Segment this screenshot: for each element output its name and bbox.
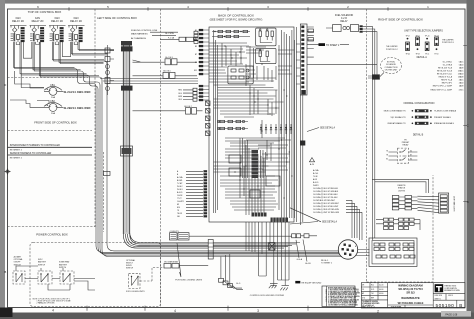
title block center titles <box>388 283 434 308</box>
svg-text:13A2C: 13A2C <box>458 69 464 72</box>
sub-circuit box U4 <box>228 66 253 84</box>
svg-text:FOR NON LOGGING UNITS: FOR NON LOGGING UNITS <box>175 280 202 282</box>
svg-text:TO SHEET 2: TO SHEET 2 <box>321 263 332 265</box>
connector pair P4 <box>133 106 203 114</box>
svg-text:B7: B7 <box>195 54 197 56</box>
title block frame <box>361 283 465 308</box>
svg-text:FOR LOGGING UNITS: FOR LOGGING UNITS <box>126 291 145 293</box>
svg-text:GL4 GL3: GL4 GL3 <box>165 57 173 59</box>
svg-text:W/ FUELING CABLE: W/ FUELING CABLE <box>398 301 424 305</box>
wire fueling line with label GL-2 <box>150 32 178 35</box>
relay K5 fuel solenoid box <box>333 25 342 32</box>
svg-text:DWG SIZE: DWG SIZE <box>435 295 442 297</box>
svg-text:OTHERWISE SPECIFIED: OTHERWISE SPECIFIED <box>362 303 380 305</box>
svg-text:WIRING DIAGRAM: WIRING DIAGRAM <box>398 283 423 287</box>
title block left table <box>361 283 387 309</box>
connector P10 <box>304 234 309 238</box>
svg-text:5A2D: 5A2D <box>459 63 464 66</box>
border zone target marker left <box>5 169 11 175</box>
svg-text:F-1 3A: F-1 3A <box>168 37 175 40</box>
svg-text:B3: B3 <box>195 38 197 40</box>
coil L1 <box>343 26 346 29</box>
svg-text:CONTROL BOX GROUND SYSTEM: CONTROL BOX GROUND SYSTEM <box>250 295 284 297</box>
svg-text:FRONT SIDE OF CONTROL BOX: FRONT SIDE OF CONTROL BOX <box>34 120 77 124</box>
svg-text:SHEET NOTES: SHEET NOTES <box>325 289 327 302</box>
light bar connector strip J7 <box>439 193 449 213</box>
svg-text:DETAIL A: DETAIL A <box>417 56 428 59</box>
svg-text:2A2D: 2A2D <box>459 81 464 84</box>
wire bundle horizontal run lower <box>150 251 342 257</box>
svg-text:4: 4 <box>52 309 54 313</box>
svg-text:W-BTK: W-BTK <box>313 185 319 187</box>
svg-text:(SEE SHEET 3 FOR P.C. BOARD CI: (SEE SHEET 3 FOR P.C. BOARD CIRCUITRY) <box>210 19 263 22</box>
svg-text:DETAIL B: DETAIL B <box>413 133 424 136</box>
edge connector J3 right pin strip <box>300 24 314 95</box>
svg-text:RE(??) GP1: RE(??) GP1 <box>442 82 452 84</box>
terminal strip TB2 <box>252 213 267 217</box>
svg-text:2: 2 <box>377 310 379 314</box>
wire to sheet 2 bold label <box>319 43 326 46</box>
svg-text:RE SHEET 2: RE SHEET 2 <box>10 157 23 159</box>
sub-circuit box U2 <box>256 28 276 46</box>
svg-text:LEFT SIDE OF CONTROL BOX: LEFT SIDE OF CONTROL BOX <box>97 16 137 20</box>
svg-text:A-CHA: A-CHA <box>177 176 183 179</box>
svg-text:RE EQUIP GROUND: RE EQUIP GROUND <box>302 282 322 284</box>
svg-text:(?)4C: (?)4C <box>459 90 464 92</box>
resistor row R7-R14 <box>217 120 248 129</box>
svg-text:WHISPERATE: WHISPERATE <box>401 296 420 300</box>
svg-text:B11: B11 <box>194 70 197 72</box>
connector cluster C6 <box>403 243 414 251</box>
wire interconnect harness <box>8 146 93 148</box>
fuse block F1 column <box>105 45 114 95</box>
wire harness to plug pair GL4 <box>133 60 165 62</box>
svg-text:BATTERY: BATTERY <box>38 261 47 264</box>
harness cable W1 thick bundle <box>121 41 151 248</box>
svg-text:STANDA/ONE SIGNALS: STANDA/ONE SIGNALS <box>434 122 455 125</box>
svg-text:RE GL2(?) TC1-B: RE GL2(?) TC1-B <box>437 70 453 72</box>
svg-text:CH CHNL(L) RED GP RED-GRN: CH CHNL(L) RED GP RED-GRN <box>313 209 339 211</box>
leader line non logging <box>177 243 181 277</box>
wire drops from relay K2 <box>33 42 102 85</box>
sub-circuit box U3 <box>256 48 276 63</box>
svg-text:TOP OF CONTROL BOX: TOP OF CONTROL BOX <box>28 10 62 14</box>
svg-text:RE GL2(?) TC1-D: RE GL2(?) TC1-D <box>437 73 453 75</box>
svg-text:30: 30 <box>410 150 412 152</box>
wire drops from relay K4 <box>72 42 115 55</box>
inter-relay U loops <box>23 42 70 58</box>
ribbon cable to light bar <box>418 196 439 213</box>
svg-text:W-GL2: W-GL2 <box>177 186 183 188</box>
diode row CR1-CR6 <box>260 124 292 134</box>
aux connector cluster P8 <box>219 278 244 289</box>
dashed boundary power box top <box>8 226 96 228</box>
svg-text:INTERCONNECT HARNESS TO CONTRO: INTERCONNECT HARNESS TO CONTROLLER <box>10 144 60 147</box>
contact pins lower-left rows <box>204 170 208 217</box>
connector square J4 <box>300 141 305 146</box>
svg-text:F-2 R: F-2 R <box>341 18 347 20</box>
wire labels column to controller <box>178 88 197 101</box>
svg-text:6-1-90: 6-1-90 <box>379 285 384 287</box>
wire bundle horizontal run upper <box>150 243 300 249</box>
svg-text:CK: CK <box>362 289 364 291</box>
svg-text:FUELING CONTROL LINE: FUELING CONTROL LINE <box>131 30 158 32</box>
svg-text:SWITCH: SWITCH <box>126 268 134 270</box>
vertical wire bus from relays with sweep to horizontal run <box>96 64 150 257</box>
svg-text:FUEL SOLENOID: FUEL SOLENOID <box>335 15 354 17</box>
svg-text:GL-D: GL-D <box>236 283 241 285</box>
svg-text:CH CHNL(L) WHT GP RED-GRN: CH CHNL(L) WHT GP RED-GRN <box>313 212 340 214</box>
component column left inner <box>206 101 211 136</box>
connector cluster C4 <box>374 243 385 251</box>
svg-text:CH CHNL(P) BLK GP BLU-BLK: CH CHNL(P) BLK GP BLU-BLK <box>313 194 339 196</box>
svg-text:4 CHNL/TS: 4 CHNL/TS <box>170 231 180 233</box>
svg-text:BACK OF CONTROL BOX: BACK OF CONTROL BOX <box>218 13 254 17</box>
svg-text:NORMAL CONFIGURATION: NORMAL CONFIGURATION <box>404 102 435 105</box>
enclosure box remote connectors <box>369 238 417 266</box>
svg-text:CH CHNL(P) BLK GP GRN-WHT: CH CHNL(P) BLK GP GRN-WHT <box>313 203 340 205</box>
svg-text:13A2D: 13A2D <box>458 72 464 75</box>
svg-text:5A2E: 5A2E <box>459 66 464 69</box>
svg-text:SD-II/5A) 30 TC/TCI: SD-II/5A) 30 TC/TCI <box>398 287 423 291</box>
svg-text:CH CHNL(P) BLK GP RED-BLK: CH CHNL(P) BLK GP RED-BLK <box>313 188 339 190</box>
connector P5 bold block <box>372 74 380 79</box>
svg-text:RELAY: RELAY <box>402 144 409 147</box>
switch SW3 <box>60 271 74 284</box>
svg-text:RE(??) GP1 L-2 JUMP: RE(??) GP1 L-2 JUMP <box>433 85 453 87</box>
dashed boundary center region <box>160 9 162 308</box>
svg-text:RE(GL?)GP1 TC-L JUMP: RE(GL?)GP1 TC-L JUMP <box>430 90 452 92</box>
page label margin <box>441 311 471 317</box>
bus wires vertical lower-left <box>246 145 264 215</box>
svg-text:PRESENT SIGNALS: PRESENT SIGNALS <box>434 116 452 119</box>
connector P9 pair <box>292 234 296 238</box>
svg-text:TK-SELECT-ONE STANDA: TK-SELECT-ONE STANDA <box>434 110 457 113</box>
scan margin left <box>0 0 5 319</box>
chassis ground G2 <box>280 283 289 290</box>
junction dots <box>221 45 292 198</box>
svg-text:GL-1 RE-B: GL-1 RE-B <box>443 64 453 66</box>
svg-text:B: B <box>467 200 469 204</box>
svg-text:505190: 505190 <box>436 303 455 309</box>
svg-text:7E-DF: 7E-DF <box>177 213 182 215</box>
svg-text:OPTIONAL: OPTIONAL <box>14 258 23 261</box>
vertical wires below edge connector <box>300 95 303 225</box>
svg-text:SR 2(3: SR 2(3 <box>406 291 415 295</box>
svg-text:CB2: CB2 <box>50 100 55 103</box>
svg-text:GL8 GL7: GL8 GL7 <box>184 106 192 108</box>
connector column fueling <box>194 31 198 34</box>
svg-text:LIGHTS: LIGHTS <box>398 190 406 192</box>
svg-text:13A2E: 13A2E <box>458 75 464 78</box>
pc board U1 outer box <box>209 27 294 222</box>
svg-text:GRN: GRN <box>178 96 183 98</box>
wires round connector to right region <box>356 250 370 256</box>
connector pair P3 <box>163 71 197 79</box>
circuit breaker CB1 20A <box>44 84 63 99</box>
wire CB2 left loop <box>10 100 49 107</box>
wire pc board to sheet2 <box>307 44 349 46</box>
svg-text:STATUS: STATUS <box>398 187 406 190</box>
svg-text:3: 3 <box>257 309 259 313</box>
svg-text:RELAY 2D: RELAY 2D <box>12 20 24 23</box>
svg-text:MAIN HARNESS: MAIN HARNESS <box>131 33 148 36</box>
cable cap connector <box>121 41 132 46</box>
svg-text:53(C SIGNALS TP-: 53(C SIGNALS TP- <box>390 116 406 119</box>
svg-text:CB1: CB1 <box>50 84 55 87</box>
relay K6 detail box dashed <box>397 148 408 163</box>
svg-text:ONE/DAT ENABLE TP-: ONE/DAT ENABLE TP- <box>387 122 406 125</box>
svg-text:20A: 20A <box>51 96 55 99</box>
svg-text:SOME HEAT: SOME HEAT <box>59 261 70 264</box>
svg-text:CH CHNL(P) BLK GP BLU-WHT: CH CHNL(P) BLK GP BLU-WHT <box>313 206 339 208</box>
dashed boundary front side region <box>8 130 93 132</box>
wire drops from relay K3 <box>53 42 108 64</box>
Thermo King logo <box>435 284 461 292</box>
wire drops from relay K1 <box>14 42 99 89</box>
svg-text:ALT HARNESS: ALT HARNESS <box>131 37 147 40</box>
svg-text:3. GROUND PER CONTROL BOX SYST: 3. GROUND PER CONTROL BOX SYSTEM <box>328 293 360 295</box>
vertical drop wires to round connector <box>352 200 362 240</box>
svg-text:CH CHNL(P) BLK GP GRN-BLK: CH CHNL(P) BLK GP GRN-BLK <box>313 191 339 193</box>
svg-text:POSITION 2-3: POSITION 2-3 <box>442 42 454 44</box>
pc board right edge double line <box>295 27 297 222</box>
switch SW1 <box>13 271 25 284</box>
svg-text:TO SHEET 2: TO SHEET 2 <box>326 45 340 47</box>
svg-text:5A2C: 5A2C <box>459 60 464 63</box>
terminal strip TB1 <box>271 218 289 223</box>
cable band connector B2 <box>121 86 133 91</box>
wire pc board to right region <box>307 64 377 74</box>
wire harness to plug pair P3 <box>133 75 163 77</box>
dashed boundary left-side region <box>94 9 96 227</box>
wire tangle mid verticals <box>240 138 266 178</box>
svg-text:TP-D: TP-D <box>434 54 439 56</box>
cable band connector B3 <box>121 146 133 156</box>
svg-text:TP-8: TP-8 <box>406 35 410 37</box>
wires to relay K6 left <box>389 152 398 160</box>
wires cluster C2 C3 <box>376 220 420 230</box>
svg-text:POWER CONTROL BOX: POWER CONTROL BOX <box>36 233 68 237</box>
svg-text:RIGHT SIDE OF CONTROL BOX: RIGHT SIDE OF CONTROL BOX <box>378 18 423 22</box>
wire drops to aux cluster <box>221 254 230 284</box>
feed wires from relay area <box>100 79 198 84</box>
svg-text:4: 4 <box>174 309 176 313</box>
svg-text:CH 2M3 BLK GP RED-WHT: CH 2M3 BLK GP RED-WHT <box>313 200 336 202</box>
svg-text:. PAGE-1.08: . PAGE-1.08 <box>444 313 458 316</box>
svg-text:GL4-A: GL4-A <box>297 258 303 261</box>
svg-text:T-CHP: T-CHP <box>177 183 183 185</box>
connector cluster C1 right column <box>399 196 418 210</box>
bold ground label <box>295 281 300 284</box>
connector pair P2 GL4/GL3 <box>165 57 197 65</box>
svg-text:B: B <box>4 270 6 274</box>
detail marker A2 triangle <box>309 158 314 162</box>
svg-text:7E: 7E <box>386 154 388 156</box>
svg-text:SEE DETAIL A: SEE DETAIL A <box>320 126 336 129</box>
svg-text:20A: 20A <box>51 112 55 115</box>
border zone ticks top <box>69 7 388 11</box>
leader line detail A <box>307 128 319 132</box>
svg-text:W-2B#14 AWG RED: W-2B#14 AWG RED <box>64 106 91 110</box>
border zone ticks bottom <box>87 306 308 311</box>
connector J5 on dashed boundary <box>104 171 111 175</box>
svg-text:GL4-B: GL4-B <box>305 263 311 265</box>
svg-text:OPTIONAL: OPTIONAL <box>126 259 135 262</box>
connector cluster C5 <box>389 243 400 251</box>
wire relay K1 to CB loop <box>15 71 44 88</box>
pin U-loops <box>16 42 77 45</box>
wires between switches <box>16 266 95 290</box>
svg-text:GL-2 47A: GL-2 47A <box>165 32 174 35</box>
svg-text:RELAY 2D: RELAY 2D <box>32 20 44 23</box>
svg-text:CH-DF: CH-DF <box>177 195 182 197</box>
svg-text:RELAY: RELAY <box>340 20 348 23</box>
notes box <box>322 286 360 307</box>
pin function list rows <box>430 60 464 91</box>
svg-text:CH CHNL(P) BLK GP YEL-BLK: CH CHNL(P) BLK GP YEL-BLK <box>313 197 338 199</box>
dashed boundary top-left region <box>8 77 89 79</box>
svg-text:505170: 505170 <box>448 295 453 297</box>
svg-text:A-START: A-START <box>14 256 22 259</box>
connector P6 4CHNL/TS <box>164 261 208 268</box>
svg-text:RE SHEET 2: RE SHEET 2 <box>10 150 23 152</box>
small component boxes lower <box>229 155 241 163</box>
dashed boundary remote lights region <box>367 175 434 282</box>
svg-text:W-GL3: W-GL3 <box>177 189 183 191</box>
note label RE GL-1 TO SHEET 2 <box>321 260 332 265</box>
svg-text:RELAY 2D: RELAY 2D <box>70 20 82 23</box>
svg-text:SHEET 1: SHEET 1 <box>435 298 441 300</box>
stubs from right list to vertical drops <box>346 200 362 212</box>
chassis ground G1 <box>269 283 278 288</box>
connector pair P1 fueling <box>179 37 186 41</box>
svg-text:RE(GL?) TC1-A: RE(GL?) TC1-A <box>439 75 453 78</box>
svg-text:CORPORATION: CORPORATION <box>444 287 457 290</box>
svg-text:GL-1 RE-D: GL-1 RE-D <box>443 61 453 63</box>
svg-text:BATTERY: BATTERY <box>59 263 68 266</box>
dashed boundary power control box <box>30 243 161 307</box>
bus wires vertical left bundle <box>214 30 218 213</box>
svg-text:B5: B5 <box>195 46 197 48</box>
circuit breaker CB2 20A <box>44 100 63 115</box>
no fuel solenoid note cloud <box>381 58 402 74</box>
wires from relay K6 right <box>409 152 418 160</box>
svg-text:B-CHL: B-CHL <box>313 173 318 175</box>
wire tangle mid horizontals <box>225 138 290 170</box>
svg-text:B-GLD: B-GLD <box>177 192 183 194</box>
svg-text:B: B <box>459 303 462 308</box>
wire mesh horizontal right half <box>246 47 294 81</box>
svg-text:6-8-90: 6-8-90 <box>379 293 384 295</box>
switch SW4 optional <box>129 273 141 288</box>
small component F2 <box>269 243 275 250</box>
svg-text:B-DML: B-DML <box>177 180 182 182</box>
connector P7 4CHNL <box>170 231 292 240</box>
relay K5 contact box <box>351 25 359 32</box>
svg-text:SWITCH: SWITCH <box>38 264 46 266</box>
connector cluster C2 <box>384 218 394 229</box>
leader line detail A lower <box>290 208 321 224</box>
wire stubs lower-left rows <box>186 171 203 216</box>
svg-text:GL6 GL5: GL6 GL5 <box>163 71 171 73</box>
wire mesh vertical short <box>222 43 276 198</box>
svg-text:2 PARALLEL OPTIONS: 2 PARALLEL OPTIONS <box>37 302 56 305</box>
wire mesh horizontal <box>209 43 291 210</box>
svg-text:RE(??) TC-A: RE(??) TC-A <box>441 78 453 81</box>
dashed boundary right region vertical <box>366 9 368 282</box>
svg-text:GN CHARGE/AN: GN CHARGE/AN <box>164 261 179 264</box>
svg-text:TP-11: TP-11 <box>425 35 430 37</box>
svg-text:CH-HTR: CH-HTR <box>177 201 184 203</box>
svg-text:W-2A#14 AWG RED: W-2A#14 AWG RED <box>64 90 91 94</box>
svg-text:B1: B1 <box>195 30 197 32</box>
resistor network R1-R6 <box>212 30 250 37</box>
svg-text:A-CHA: A-CHA <box>313 169 319 172</box>
svg-text:RELAY 2D: RELAY 2D <box>51 20 63 23</box>
svg-text:POSITION 1-2: POSITION 1-2 <box>386 49 398 51</box>
svg-text:B9: B9 <box>195 62 197 64</box>
connector cluster C1 left column <box>392 196 399 210</box>
svg-text:85: 85 <box>386 158 388 160</box>
wires pc board to edge connector <box>296 44 300 84</box>
bus wires vertical right bundle <box>279 30 295 218</box>
svg-text:E10: E10 <box>177 207 180 209</box>
dashed boundary inner <box>103 152 105 232</box>
switch SW2 <box>38 271 52 284</box>
svg-text:REF: REF <box>371 297 374 299</box>
title block logo cell <box>433 283 465 308</box>
connector cluster C3 <box>399 218 415 229</box>
svg-text:ON THIS UNIT: ON THIS UNIT <box>385 69 398 71</box>
scan corner black patch <box>0 308 13 318</box>
svg-text:LIGHT BAR CONN: LIGHT BAR CONN <box>453 196 456 212</box>
svg-text:SENSOR HARNESS TO CONTROLLER: SENSOR HARNESS TO CONTROLLER <box>10 152 52 155</box>
svg-text:86: 86 <box>410 158 412 160</box>
wire list right of pc board <box>313 169 340 214</box>
svg-text:87: 87 <box>410 154 412 156</box>
round connector J1 <box>338 240 357 259</box>
connector pins fuel <box>360 25 363 27</box>
svg-text:T-DM: T-DM <box>313 176 318 178</box>
svg-text:B-GLD: B-GLD <box>313 182 319 184</box>
svg-text:2A2E: 2A2E <box>459 84 464 87</box>
left edge connector J2 pin rows <box>194 29 209 101</box>
ground wire drops <box>246 222 289 283</box>
svg-text:2A2C: 2A2C <box>459 78 464 81</box>
scan margin bottom <box>0 313 474 319</box>
wire feed to light bar <box>372 179 428 193</box>
svg-text:6-4-90: 6-4-90 <box>379 289 384 291</box>
inline connector J6 <box>208 240 213 260</box>
svg-text:UNIT TYPE SELECTION JUMPERS: UNIT TYPE SELECTION JUMPERS <box>404 29 443 32</box>
svg-text:E9: E9 <box>177 204 179 206</box>
scan margin top <box>0 0 474 4</box>
svg-text:A-DF: A-DF <box>313 178 317 181</box>
wire label list lower-left rows <box>177 170 184 218</box>
scan margin right <box>467 0 474 319</box>
svg-text:SEE DETAIL A: SEE DETAIL A <box>322 221 338 224</box>
svg-text:SELECT-ONE ENABLE TP-: SELECT-ONE ENABLE TP- <box>384 110 407 113</box>
wires fuel solenoid to right drops <box>326 26 377 240</box>
connector bank column mid <box>252 150 259 178</box>
cable band connector B1 <box>121 46 133 51</box>
connector cluster C7 row <box>376 255 415 258</box>
svg-text:RE GL1(?) TC-B: RE GL1(?) TC-B <box>438 67 453 69</box>
wire sensor harness <box>8 154 93 156</box>
dashed wire optional switch <box>140 268 164 282</box>
